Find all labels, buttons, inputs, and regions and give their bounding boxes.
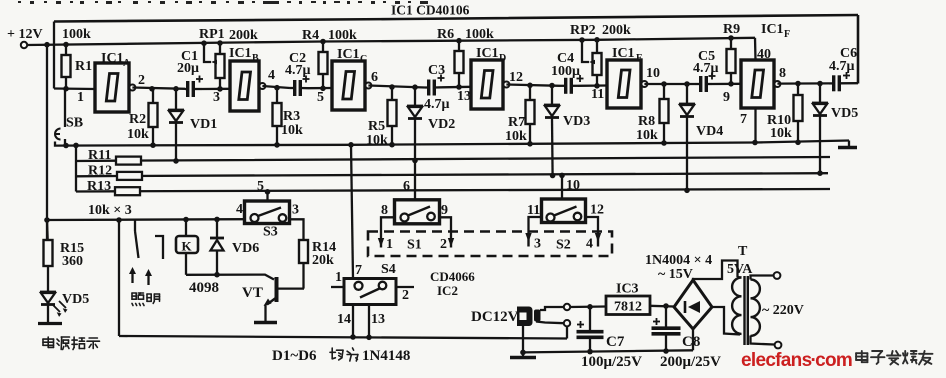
svg-text:IC1 CD40106: IC1 CD40106 bbox=[391, 3, 470, 18]
op-amp U1 gate IC1F bbox=[741, 60, 774, 108]
IC U2 CD4066 dashed outline bbox=[368, 232, 612, 257]
svg-text:6: 6 bbox=[403, 179, 410, 194]
diode VD5 top right bbox=[819, 84, 821, 104]
wire bridge top AC to transformer bbox=[693, 261, 738, 281]
svg-text:360: 360 bbox=[62, 254, 83, 269]
op-amp U1 gate IC1E bbox=[607, 60, 641, 108]
op-amp U1 gate IC1D bbox=[471, 60, 503, 109]
wire ground rail bbox=[55, 141, 849, 146]
wire ground rail drop to S4 pin7 bbox=[351, 145, 353, 279]
junction dots on ground rail bbox=[63, 140, 801, 149]
svg-text:F: F bbox=[784, 29, 790, 40]
svg-text:~ 220V: ~ 220V bbox=[762, 303, 804, 318]
wire node 5 input bbox=[308, 87, 332, 89]
svg-text:4: 4 bbox=[236, 202, 243, 217]
svg-text:IC2: IC2 bbox=[437, 283, 458, 298]
svg-text:IC3: IC3 bbox=[616, 282, 639, 297]
resistor R15 bbox=[44, 240, 53, 266]
wire S4 pin2 lead bbox=[396, 286, 414, 288]
wire node 9 input bbox=[712, 83, 741, 85]
wire IC3 output to bridge bbox=[650, 305, 674, 308]
svg-text:IC1: IC1 bbox=[101, 51, 124, 66]
svg-text:40: 40 bbox=[757, 47, 771, 62]
svg-text:4.7μ: 4.7μ bbox=[693, 61, 719, 76]
wire bus line R11 bbox=[76, 157, 830, 161]
svg-text:10k: 10k bbox=[505, 129, 527, 144]
svg-text:100μ/25V: 100μ/25V bbox=[581, 354, 642, 370]
wire node 4 output bbox=[262, 86, 290, 88]
wire bridge bottom to DC minus rail bbox=[692, 329, 694, 350]
bridge rectifier 1N4004 x4 bbox=[674, 280, 712, 329]
svg-text:RP1: RP1 bbox=[199, 27, 225, 42]
svg-text:~ 15V: ~ 15V bbox=[658, 267, 693, 282]
svg-text:100k: 100k bbox=[62, 27, 91, 42]
terminal primary bottom bbox=[775, 342, 782, 349]
wire DC positive line to IC3 bbox=[570, 305, 606, 308]
capacitor C4 bbox=[564, 78, 567, 94]
transformer T bbox=[732, 278, 741, 334]
wire jack ground stem bbox=[522, 326, 524, 352]
svg-text:20k: 20k bbox=[312, 253, 334, 268]
ground symbol at right end of ground rail bbox=[848, 141, 850, 147]
diode VD1 bbox=[175, 89, 177, 110]
capacitor C8 bbox=[665, 306, 667, 327]
svg-text:3: 3 bbox=[213, 90, 220, 105]
svg-text:10: 10 bbox=[646, 66, 660, 81]
svg-text:10k: 10k bbox=[281, 123, 303, 138]
svg-text:T: T bbox=[738, 244, 748, 259]
svg-text:C7: C7 bbox=[606, 334, 625, 350]
resistor R8 bbox=[660, 99, 669, 123]
svg-text:13: 13 bbox=[371, 312, 385, 327]
op-amp U1 gate IC1A bbox=[95, 63, 129, 112]
capacitor C5 bbox=[699, 76, 702, 92]
svg-text:10: 10 bbox=[566, 178, 580, 193]
svg-text:VD3: VD3 bbox=[563, 114, 590, 129]
svg-text:D: D bbox=[499, 53, 506, 64]
wire feedback frame right side bbox=[857, 15, 860, 84]
svg-text:10k: 10k bbox=[770, 126, 792, 141]
resistor R14 bbox=[299, 240, 308, 263]
resistor R6 bbox=[455, 51, 464, 73]
resistor R5 bbox=[388, 100, 397, 126]
wire S4 pin13 lead bbox=[368, 305, 370, 338]
svg-text:5: 5 bbox=[317, 90, 324, 105]
svg-text:100k: 100k bbox=[328, 28, 357, 43]
svg-text:10k: 10k bbox=[127, 127, 149, 142]
op-amp U1 gate IC1B bbox=[230, 61, 259, 111]
svg-text:K: K bbox=[182, 239, 193, 254]
terminal jack tip bbox=[564, 304, 570, 310]
wire bottom rail bbox=[119, 336, 567, 339]
capacitor C2 bbox=[293, 80, 296, 96]
wire +12V rail bbox=[27, 38, 755, 45]
label power indicator (CJK) bbox=[43, 337, 54, 347]
svg-text:4: 4 bbox=[586, 237, 593, 252]
resistor R3 bbox=[273, 103, 282, 126]
svg-text:14: 14 bbox=[337, 312, 351, 327]
wire node 8 output bbox=[777, 82, 829, 84]
wire left vertical from +12V rail down to lighting block bbox=[46, 45, 48, 240]
svg-text:8: 8 bbox=[381, 203, 388, 218]
svg-text:4.7μ: 4.7μ bbox=[285, 63, 311, 78]
svg-text:B: B bbox=[252, 53, 259, 64]
svg-text:SB: SB bbox=[66, 116, 83, 131]
terminal +12V bbox=[21, 42, 27, 48]
wire primary bottom lead bbox=[751, 336, 775, 345]
svg-text:7: 7 bbox=[355, 263, 362, 278]
svg-text:5: 5 bbox=[257, 179, 264, 194]
junction dots on +12V rail bbox=[44, 35, 734, 47]
svg-text:12: 12 bbox=[590, 203, 604, 218]
svg-text:1: 1 bbox=[386, 237, 393, 252]
resistor R2 bbox=[149, 103, 158, 127]
svg-text:7: 7 bbox=[740, 112, 747, 127]
wire node 3 input bbox=[202, 88, 230, 90]
svg-text:3: 3 bbox=[534, 237, 541, 252]
diode VD4 bbox=[686, 84, 688, 104]
wire node 2 output bbox=[132, 88, 185, 89]
capacitor C7 bbox=[589, 307, 591, 330]
svg-text:3: 3 bbox=[292, 203, 299, 218]
svg-text:1: 1 bbox=[335, 270, 342, 285]
resistor R13 bbox=[115, 187, 140, 195]
svg-text:11: 11 bbox=[591, 87, 604, 102]
wire node 6 output bbox=[368, 86, 425, 88]
switch S2 bbox=[542, 199, 586, 223]
svg-text:4.7μ: 4.7μ bbox=[829, 59, 855, 74]
wire S4 pin1 lead bbox=[331, 286, 344, 288]
svg-text:4: 4 bbox=[268, 68, 275, 83]
svg-text:100k: 100k bbox=[465, 27, 494, 42]
svg-text:R5: R5 bbox=[368, 119, 385, 134]
svg-text:VD4: VD4 bbox=[696, 124, 723, 139]
svg-text:100μ: 100μ bbox=[551, 64, 580, 79]
svg-text:12: 12 bbox=[509, 70, 523, 85]
DC plug bbox=[517, 307, 533, 327]
svg-text:VD5: VD5 bbox=[62, 292, 89, 307]
ground symbol at VT emitter bbox=[254, 321, 277, 325]
svg-text:R4: R4 bbox=[302, 28, 319, 43]
svg-text:A: A bbox=[123, 58, 131, 69]
svg-text:C: C bbox=[360, 54, 367, 65]
svg-text:13: 13 bbox=[457, 89, 471, 104]
svg-text:200k: 200k bbox=[602, 23, 631, 38]
svg-text:200k: 200k bbox=[229, 28, 258, 43]
wire feedback frame top bbox=[54, 15, 858, 22]
svg-text:C3: C3 bbox=[428, 63, 445, 78]
wire node 13 input bbox=[442, 86, 471, 89]
wire node 12 output bbox=[506, 85, 560, 86]
relay K bbox=[185, 220, 187, 237]
wire bridge right AC to transformer bottom bbox=[712, 307, 740, 335]
svg-text:1: 1 bbox=[77, 90, 84, 105]
svg-text:C8: C8 bbox=[682, 334, 700, 350]
wire jack tip to terminal bbox=[540, 307, 564, 310]
svg-text:IC1: IC1 bbox=[229, 46, 252, 61]
wire lighting block top rail bbox=[47, 218, 245, 221]
svg-text:RP2: RP2 bbox=[570, 23, 596, 38]
svg-text:R2: R2 bbox=[129, 112, 146, 127]
svg-text:E: E bbox=[636, 53, 643, 64]
svg-text:R13: R13 bbox=[87, 179, 111, 194]
svg-text:R9: R9 bbox=[723, 22, 740, 37]
svg-text:1N4148: 1N4148 bbox=[362, 348, 410, 364]
switch S1 bbox=[395, 200, 440, 224]
svg-text:10k: 10k bbox=[366, 133, 388, 148]
capacitor C1 bbox=[186, 81, 189, 97]
svg-text:7812: 7812 bbox=[614, 300, 642, 315]
wire node 5 drop to S3 bbox=[266, 192, 268, 201]
svg-text:9: 9 bbox=[441, 203, 448, 218]
svg-text:R7: R7 bbox=[508, 115, 525, 130]
resistor R9 bbox=[727, 49, 736, 73]
capacitor C3 bbox=[427, 80, 430, 96]
wire S1 pin8 to IC2 pin1 bbox=[381, 217, 395, 238]
svg-text:IC1: IC1 bbox=[476, 46, 499, 61]
wire net 10 drop to S2 bbox=[561, 175, 563, 199]
svg-text:S1: S1 bbox=[407, 238, 422, 253]
potentiometer RP1 bbox=[216, 54, 225, 78]
wire rail bend up to jack sleeve terminal bbox=[566, 327, 568, 339]
pin 7 lead of IC1F bbox=[754, 108, 756, 143]
switch lighting (zhaoming) bbox=[134, 220, 136, 231]
svg-text:2: 2 bbox=[440, 237, 447, 252]
svg-text:DC12V: DC12V bbox=[471, 309, 519, 325]
svg-text:R8: R8 bbox=[638, 114, 655, 129]
svg-text:VD5: VD5 bbox=[831, 106, 858, 121]
diode VD2 bbox=[414, 87, 416, 106]
svg-text:S3: S3 bbox=[263, 225, 278, 240]
wire S3 pin3 to R14 bbox=[290, 219, 304, 240]
wire node 10 output bbox=[644, 83, 695, 85]
svg-text:8: 8 bbox=[779, 66, 786, 81]
svg-text:11: 11 bbox=[527, 203, 540, 218]
svg-text:S4: S4 bbox=[381, 262, 396, 277]
svg-text:R6: R6 bbox=[437, 27, 454, 42]
svg-text:9: 9 bbox=[723, 90, 730, 105]
svg-text:1N4004 × 4: 1N4004 × 4 bbox=[645, 253, 712, 268]
wire node 11 input bbox=[578, 84, 607, 87]
svg-text:200μ/25V: 200μ/25V bbox=[660, 354, 721, 370]
wire +12V rail drop to IC1F pin 14 bbox=[754, 38, 757, 60]
svg-text:VD1: VD1 bbox=[190, 117, 217, 132]
wire relay to transistor base bbox=[186, 275, 274, 280]
terminal jack sleeve bbox=[564, 320, 570, 326]
wire S2 pin12 to IC2 pin4 bbox=[586, 217, 599, 233]
switch S3 bbox=[245, 201, 290, 224]
svg-text:IC1: IC1 bbox=[337, 47, 360, 62]
svg-text:R11: R11 bbox=[88, 148, 111, 163]
svg-text:D1~D6: D1~D6 bbox=[272, 348, 317, 364]
diode VD3 bbox=[551, 86, 553, 106]
switch SB bbox=[64, 89, 66, 127]
switch S4 bbox=[344, 279, 396, 305]
resistor R10 bbox=[794, 95, 803, 121]
capacitor C6 bbox=[832, 75, 835, 91]
wire bus line R13 bbox=[76, 189, 830, 192]
wire DC minus rail bbox=[523, 350, 693, 352]
wire S1 pin9 to IC2 pin2 bbox=[440, 217, 452, 238]
svg-text:elecfans·com: elecfans·com bbox=[741, 350, 852, 371]
svg-text:4.7μ: 4.7μ bbox=[424, 97, 450, 112]
wire jack sleeve to terminal bbox=[536, 322, 564, 324]
wire primary top lead bbox=[751, 276, 774, 280]
svg-text:20μ: 20μ bbox=[177, 61, 199, 76]
svg-text:IC1: IC1 bbox=[612, 46, 635, 61]
svg-text:IC1: IC1 bbox=[761, 22, 784, 37]
cropped text row at top edge bbox=[18, 1, 428, 4]
terminal primary top bbox=[774, 272, 781, 279]
svg-text:VD2: VD2 bbox=[428, 117, 455, 132]
diode VD6 bbox=[216, 219, 218, 237]
svg-text:+ 12V: + 12V bbox=[7, 27, 43, 42]
svg-text:R3: R3 bbox=[283, 109, 300, 124]
resistor R1 bbox=[62, 55, 71, 77]
svg-text:VT: VT bbox=[242, 285, 263, 301]
label lighting (CJK) bbox=[132, 293, 144, 306]
svg-text:VD6: VD6 bbox=[232, 241, 259, 256]
wire S2 pin11 to IC2 pin3 bbox=[529, 217, 542, 233]
transistor VT bbox=[275, 277, 279, 302]
svg-text:S2: S2 bbox=[556, 238, 571, 253]
svg-text:2: 2 bbox=[138, 73, 145, 88]
resistor R4 bbox=[319, 52, 328, 74]
resistor R11 bbox=[116, 157, 141, 165]
IC3 7812 regulator bbox=[606, 296, 650, 315]
svg-text:4098: 4098 bbox=[189, 280, 219, 296]
resistor R7 bbox=[526, 100, 535, 124]
wire bus left riser bbox=[75, 145, 77, 191]
svg-text:6: 6 bbox=[371, 70, 378, 85]
svg-text:R1: R1 bbox=[75, 59, 92, 74]
svg-text:CD4066: CD4066 bbox=[430, 269, 475, 284]
LED VD5 power indicator bbox=[40, 291, 56, 294]
wire net 6 vertical to S1 bbox=[414, 120, 416, 200]
potentiometer RP2 bbox=[593, 53, 602, 75]
svg-text:10k: 10k bbox=[636, 128, 658, 143]
wire node 1 input bbox=[54, 87, 95, 90]
watermark CJK dianzifashaoyou bbox=[856, 351, 867, 362]
wire S4 pin14 lead bbox=[352, 305, 354, 338]
svg-text:2: 2 bbox=[402, 288, 409, 303]
resistor R12 bbox=[117, 172, 142, 180]
wire feedback frame left drop to node 1 bbox=[53, 22, 55, 89]
ground symbol below DC plug bbox=[522, 352, 524, 356]
op-amp U1 gate IC1C bbox=[332, 61, 365, 110]
wire bus line R12 bbox=[76, 173, 828, 176]
svg-text:10k × 3: 10k × 3 bbox=[88, 203, 132, 218]
svg-text:R12: R12 bbox=[88, 164, 112, 179]
wire left drop to bottom rail bbox=[118, 220, 120, 336]
